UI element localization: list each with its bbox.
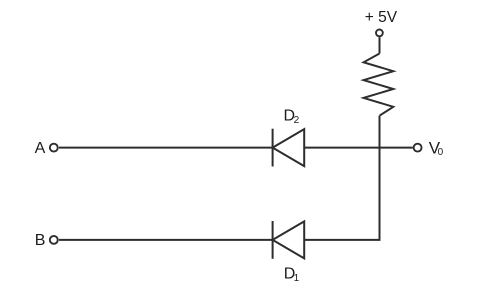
svg-text:2: 2 bbox=[294, 115, 300, 126]
svg-text:A: A bbox=[35, 140, 46, 157]
svg-text:1: 1 bbox=[294, 273, 300, 284]
svg-text:0: 0 bbox=[438, 147, 444, 158]
svg-text:B: B bbox=[35, 232, 46, 249]
svg-text:+ 5V: + 5V bbox=[365, 9, 398, 26]
